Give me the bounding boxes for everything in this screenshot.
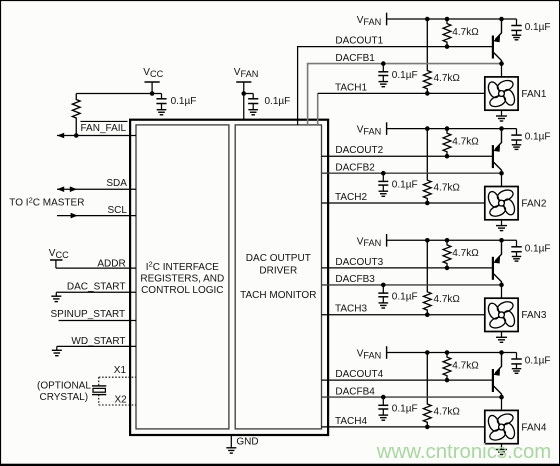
transistor Q1 (PNP) <box>493 19 502 77</box>
transistor Q4 (PNP) <box>493 353 502 411</box>
wire DACFB2 <box>322 171 504 176</box>
svg-text:TACH2: TACH2 <box>335 192 367 203</box>
svg-text:SDA: SDA <box>106 178 127 189</box>
svg-text:www.cntronics.com: www.cntronics.com <box>376 441 552 463</box>
svg-text:X2: X2 <box>115 394 128 405</box>
VFAN supply fan1 <box>357 13 387 27</box>
svg-text:4.7kΩ: 4.7kΩ <box>452 136 479 147</box>
svg-text:TACH4: TACH4 <box>335 416 367 427</box>
wire SDA <box>57 188 136 190</box>
resistor 4.7k TACH2 pullup <box>423 129 460 203</box>
capacitor 0.1uF on DACFB4 <box>378 397 417 420</box>
wire VFAN rail fan2 <box>387 126 517 131</box>
svg-text:0.1µF: 0.1µF <box>525 22 551 33</box>
svg-text:FAN1: FAN1 <box>521 89 546 100</box>
capacitor C2 0.1uF on VFAN <box>241 91 290 115</box>
transistor Q3 (PNP) <box>493 240 502 298</box>
DAC output driver / tach monitor block U1b <box>235 125 321 429</box>
svg-text:0.1µF: 0.1µF <box>525 132 551 143</box>
svg-text:DACOUT4: DACOUT4 <box>335 369 383 380</box>
svg-text:CONTROL LOGIC: CONTROL LOGIC <box>141 285 223 296</box>
resistor 4.7k TACH3 pullup <box>423 240 460 314</box>
svg-text:REGISTERS, AND: REGISTERS, AND <box>140 273 224 284</box>
fan FAN4 <box>485 410 518 443</box>
svg-text:DAC_START: DAC_START <box>67 282 126 293</box>
svg-text:TO I2C MASTER: TO I2C MASTER <box>9 195 84 208</box>
capacitor 0.1uF on DACFB3 <box>378 285 417 308</box>
ground below FAN3 <box>501 332 503 338</box>
resistor 4.7k TACH4 pullup <box>423 353 460 427</box>
ground GND pin <box>226 436 258 453</box>
svg-text:DACOUT1: DACOUT1 <box>335 36 383 47</box>
capacitor 0.1uF on DACFB2 <box>378 173 417 196</box>
wire TACH1 <box>318 91 485 125</box>
crystal Y1 (optional) <box>92 377 106 405</box>
svg-text:4.7kΩ: 4.7kΩ <box>434 406 461 417</box>
svg-text:0.1µF: 0.1µF <box>392 291 418 302</box>
ground below FAN4 <box>501 444 503 450</box>
resistor 4.7k DACOUT2 pullup <box>443 129 479 157</box>
svg-text:VFAN: VFAN <box>357 125 382 137</box>
wire DACOUT1 <box>298 44 493 125</box>
resistor 4.7k TACH1 pullup <box>423 19 460 93</box>
svg-text:FAN4: FAN4 <box>521 422 546 433</box>
fan FAN1 <box>485 77 518 110</box>
wire VFAN rail fan3 <box>387 238 517 243</box>
VCC supply <box>143 67 163 94</box>
svg-text:DACFB1: DACFB1 <box>335 53 375 64</box>
ground at DAC_START <box>55 292 57 296</box>
wire SCL <box>57 215 136 217</box>
svg-text:0.1µF: 0.1µF <box>265 96 291 107</box>
arrow FAN_FAIL output <box>57 133 64 139</box>
svg-text:ADDR: ADDR <box>97 259 125 270</box>
svg-text:DAC OUTPUT: DAC OUTPUT <box>246 253 311 264</box>
svg-text:4.7kΩ: 4.7kΩ <box>434 182 461 193</box>
svg-text:VCC: VCC <box>143 67 163 79</box>
wire X1 (dashed) <box>99 376 136 378</box>
resistor 4.7k DACOUT4 pullup <box>443 353 479 381</box>
wire DACFB3 <box>322 283 504 288</box>
svg-text:VFAN: VFAN <box>357 15 382 27</box>
svg-text:WD_START: WD_START <box>71 336 125 347</box>
capacitor 0.1uF VFAN bypass fan3 <box>511 240 550 261</box>
capacitor 0.1uF VFAN bypass fan2 <box>511 129 550 150</box>
wire SPINUP_START <box>59 320 136 322</box>
wire DACFB1 <box>308 61 504 125</box>
svg-text:VCC: VCC <box>49 248 69 260</box>
svg-text:DACFB4: DACFB4 <box>335 386 375 397</box>
svg-text:0.1µF: 0.1µF <box>392 404 418 415</box>
svg-text:DRIVER: DRIVER <box>259 265 297 276</box>
svg-text:SCL: SCL <box>108 205 128 216</box>
wire TACH2 <box>322 201 485 206</box>
svg-text:0.1µF: 0.1µF <box>392 180 418 191</box>
svg-text:VFAN: VFAN <box>357 349 382 361</box>
I2C interface block U1a <box>136 125 229 429</box>
svg-text:4.7kΩ: 4.7kΩ <box>452 248 479 259</box>
svg-text:CRYSTAL): CRYSTAL) <box>40 392 89 403</box>
svg-text:GND: GND <box>236 437 258 448</box>
svg-text:TACH1: TACH1 <box>335 82 367 93</box>
wire FAN_FAIL <box>57 133 136 138</box>
arrow SCL input <box>71 213 78 219</box>
svg-text:0.1µF: 0.1µF <box>171 96 197 107</box>
wire WD_START <box>57 345 136 347</box>
wire DACOUT2 <box>322 154 493 159</box>
ground below FAN1 <box>501 110 503 116</box>
resistor 4.7k DACOUT3 pullup <box>443 240 479 268</box>
wire DACOUT3 <box>322 266 493 271</box>
capacitor 0.1uF on DACFB1 <box>378 64 417 87</box>
ground below FAN2 <box>501 220 503 226</box>
resistor 4.7k DACOUT1 pullup <box>443 19 479 47</box>
svg-text:VFAN: VFAN <box>234 67 259 79</box>
VFAN supply fan3 <box>357 234 387 248</box>
svg-text:DACOUT3: DACOUT3 <box>335 257 383 268</box>
IC block outer box <box>130 120 328 435</box>
wire VCC node <box>76 91 161 96</box>
svg-text:FAN_FAIL: FAN_FAIL <box>81 123 127 134</box>
svg-text:SPINUP_START: SPINUP_START <box>51 309 126 320</box>
svg-text:DACOUT2: DACOUT2 <box>335 145 383 156</box>
svg-text:TACH MONITOR: TACH MONITOR <box>240 290 316 301</box>
svg-text:I2C INTERFACE: I2C INTERFACE <box>146 260 219 273</box>
svg-text:4.7kΩ: 4.7kΩ <box>434 73 461 84</box>
label FAN_FAIL <box>81 121 128 133</box>
svg-text:DACFB3: DACFB3 <box>335 274 375 285</box>
resistor R1 FAN_FAIL pullup <box>72 94 80 136</box>
wire TACH3 <box>322 312 485 317</box>
ground at WD_START <box>56 346 58 350</box>
svg-text:X1: X1 <box>114 365 127 376</box>
svg-text:FAN2: FAN2 <box>521 198 546 209</box>
svg-text:FAN3: FAN3 <box>521 310 546 321</box>
label OPTIONAL CRYSTAL <box>37 381 91 403</box>
wire DACFB4 <box>322 395 504 400</box>
fan FAN3 <box>485 298 518 331</box>
wire ADDR <box>56 267 136 269</box>
fan FAN2 <box>485 187 518 220</box>
svg-text:(OPTIONAL: (OPTIONAL <box>37 381 91 392</box>
capacitor 0.1uF VFAN bypass fan1 <box>511 19 550 40</box>
VCC supply at ADDR <box>49 248 69 268</box>
svg-text:0.1µF: 0.1µF <box>525 356 551 367</box>
capacitor 0.1uF VFAN bypass fan4 <box>511 353 550 374</box>
svg-text:VFAN: VFAN <box>357 236 382 248</box>
capacitor C1 0.1uF on VCC <box>156 94 196 115</box>
wire X2 (dashed) <box>99 404 136 406</box>
svg-text:4.7kΩ: 4.7kΩ <box>452 27 479 38</box>
wire DACOUT4 <box>322 378 493 383</box>
wire VFAN rail fan4 <box>387 350 517 355</box>
VFAN supply fan4 <box>357 346 387 360</box>
VFAN supply (top) <box>234 67 259 120</box>
svg-text:TACH3: TACH3 <box>335 304 367 315</box>
svg-text:4.7kΩ: 4.7kΩ <box>452 360 479 371</box>
svg-text:0.1µF: 0.1µF <box>525 243 551 254</box>
wire DAC_START <box>56 291 136 293</box>
VFAN supply fan2 <box>357 122 387 136</box>
svg-text:4.7kΩ: 4.7kΩ <box>434 294 461 305</box>
arrow SDA bidirectional <box>57 186 77 192</box>
svg-text:0.1µF: 0.1µF <box>392 70 418 81</box>
svg-text:DACFB2: DACFB2 <box>335 163 375 174</box>
transistor Q2 (PNP) <box>493 129 502 187</box>
wire TACH4 <box>322 425 485 430</box>
wire VFAN rail fan1 <box>387 17 517 22</box>
